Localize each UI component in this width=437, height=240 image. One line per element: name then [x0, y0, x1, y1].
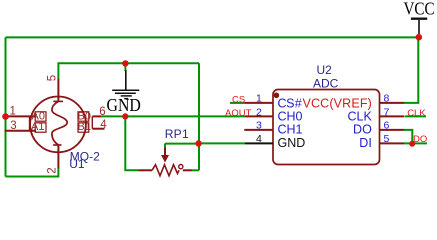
svg-text:CH1: CH1 — [278, 123, 303, 137]
svg-text:B1: B1 — [78, 121, 91, 133]
svg-text:CS: CS — [278, 96, 295, 110]
svg-text:3: 3 — [256, 120, 262, 132]
svg-text:ADC: ADC — [313, 77, 339, 91]
svg-text:5: 5 — [384, 133, 390, 145]
svg-text:CH0: CH0 — [278, 109, 303, 123]
svg-text:CS: CS — [232, 94, 245, 105]
svg-text:DI: DI — [359, 136, 372, 150]
svg-text:3: 3 — [10, 120, 16, 132]
svg-text:6: 6 — [99, 106, 105, 118]
svg-text:4: 4 — [100, 119, 107, 131]
svg-text:4: 4 — [256, 133, 262, 145]
svg-text:U1: U1 — [69, 157, 85, 171]
svg-text:GND: GND — [278, 136, 306, 150]
svg-text:#: # — [295, 96, 302, 110]
svg-text:VCC: VCC — [403, 0, 434, 19]
svg-text:2: 2 — [256, 106, 262, 118]
svg-text:1: 1 — [9, 105, 15, 117]
svg-text:7: 7 — [384, 106, 390, 118]
svg-text:CLK: CLK — [347, 109, 372, 123]
svg-text:5: 5 — [47, 75, 59, 81]
svg-text:6: 6 — [384, 120, 390, 132]
svg-text:2: 2 — [46, 167, 58, 173]
svg-text:DO: DO — [353, 123, 372, 137]
svg-text:GND: GND — [107, 95, 141, 115]
svg-text:CLK: CLK — [407, 108, 426, 119]
svg-text:AOUT: AOUT — [225, 108, 252, 119]
svg-text:A1: A1 — [31, 121, 44, 133]
svg-text:8: 8 — [384, 93, 390, 105]
svg-text:VCC(VREF): VCC(VREF) — [303, 96, 372, 110]
svg-text:RP1: RP1 — [165, 127, 189, 141]
svg-text:U2: U2 — [317, 63, 333, 77]
svg-text:1: 1 — [256, 93, 262, 105]
